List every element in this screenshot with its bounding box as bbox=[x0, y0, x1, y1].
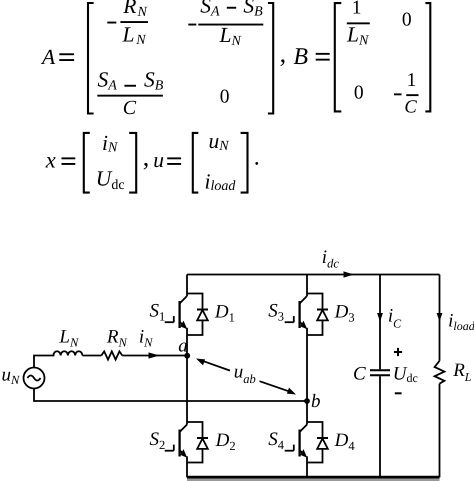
transistor S2 bbox=[165, 425, 187, 457]
transistor S3 bbox=[285, 296, 307, 328]
arrow idc bbox=[344, 271, 355, 277]
equation: matrix B right bracket bbox=[425, 3, 430, 111]
svg-text:,: , bbox=[280, 39, 287, 68]
equation: fraction bar 1/LN bbox=[347, 22, 370, 24]
svg-text:SA: SA bbox=[98, 68, 118, 94]
equation: fraction bar (SA-SB)/C bbox=[97, 95, 163, 97]
wire load branch upper bbox=[439, 275, 441, 361]
diode D1 bbox=[187, 294, 208, 336]
svg-text:Udc: Udc bbox=[393, 364, 418, 386]
equation: vector u right bracket bbox=[241, 133, 248, 193]
svg-text:LN: LN bbox=[346, 23, 369, 49]
wire top rail bbox=[187, 274, 440, 276]
svg-text:0: 0 bbox=[220, 87, 230, 108]
gray strip under bottom rail bbox=[187, 479, 440, 481]
wire leg2 upper bbox=[306, 275, 308, 297]
svg-text:iload: iload bbox=[448, 311, 474, 334]
svg-text:C: C bbox=[404, 98, 417, 118]
svg-text:RN: RN bbox=[122, 0, 147, 20]
svg-text:S4: S4 bbox=[268, 429, 285, 452]
svg-text:S3: S3 bbox=[268, 300, 284, 323]
svg-text:0: 0 bbox=[402, 10, 412, 31]
diode D3 bbox=[307, 294, 328, 336]
svg-text:idc: idc bbox=[322, 247, 340, 271]
svg-text:iC: iC bbox=[388, 306, 402, 331]
label Udc plus sign bbox=[394, 351, 402, 353]
wire resistor to node a bbox=[122, 355, 187, 357]
wire load branch lower bbox=[439, 384, 441, 478]
equation: vector u left bracket bbox=[193, 133, 199, 193]
svg-text:iload: iload bbox=[205, 169, 237, 194]
svg-text:D1: D1 bbox=[214, 301, 235, 324]
capacitor C plates bbox=[370, 370, 390, 375]
resistor RL bbox=[435, 361, 445, 384]
svg-text:x: x bbox=[45, 148, 56, 173]
equation: fraction bar RN/LN bbox=[120, 21, 148, 23]
wire capacitor branch lower bbox=[379, 376, 381, 477]
equation: minus before RN/LN bbox=[107, 22, 116, 24]
wire leg1 middle bbox=[186, 328, 188, 425]
svg-text:LN: LN bbox=[122, 22, 147, 48]
wire capacitor branch upper bbox=[379, 275, 381, 370]
equation: matrix A right bracket bbox=[268, 3, 273, 114]
equation: equals after x bbox=[62, 157, 76, 159]
svg-text:D4: D4 bbox=[334, 430, 356, 453]
transistor S4 bbox=[285, 425, 307, 457]
svg-text:SA: SA bbox=[200, 0, 220, 19]
svg-text:Udc: Udc bbox=[96, 166, 125, 193]
equation: fraction bar (SA-SB)/LN bbox=[198, 24, 263, 26]
svg-text:a: a bbox=[178, 336, 188, 357]
node b bbox=[304, 398, 310, 404]
svg-text:A: A bbox=[40, 45, 56, 69]
wire source bottom to node b bbox=[34, 389, 307, 402]
svg-text:0: 0 bbox=[354, 83, 364, 104]
svg-text:C: C bbox=[353, 364, 366, 385]
svg-text:RL: RL bbox=[452, 360, 472, 384]
arrow iN bbox=[149, 352, 160, 358]
svg-text:SB: SB bbox=[243, 0, 263, 19]
svg-text:S2: S2 bbox=[150, 429, 166, 452]
source uN bbox=[24, 368, 45, 389]
svg-text:B: B bbox=[293, 44, 308, 70]
equation: equals after u bbox=[167, 157, 181, 159]
svg-text:uN: uN bbox=[2, 365, 21, 388]
equation: minus inside SA-SB row1 bbox=[227, 7, 236, 9]
svg-text:uab: uab bbox=[234, 361, 256, 386]
equation: vector x left bracket bbox=[84, 133, 90, 193]
equation: equals after A bbox=[59, 53, 74, 55]
svg-text:1: 1 bbox=[352, 0, 362, 19]
circuit labels bbox=[2, 247, 474, 453]
equation: fraction bar 1/C bbox=[406, 94, 418, 96]
svg-text:,: , bbox=[143, 143, 150, 172]
wire after inductor to resistor bbox=[82, 355, 101, 357]
label Udc minus sign bbox=[395, 392, 402, 394]
svg-text:D2: D2 bbox=[215, 430, 236, 453]
svg-text:SB: SB bbox=[144, 68, 164, 94]
svg-text:C: C bbox=[123, 97, 137, 119]
resistor RN bbox=[101, 351, 122, 359]
wire bottom rail bbox=[187, 476, 440, 479]
equation: vector x right bracket bbox=[129, 133, 136, 193]
svg-text:D3: D3 bbox=[334, 301, 355, 324]
wire leg2 lower bbox=[306, 456, 308, 477]
svg-text:iN: iN bbox=[139, 327, 153, 350]
svg-text:1: 1 bbox=[407, 70, 417, 91]
inductor LN bbox=[53, 351, 82, 355]
equation: matrix B left bracket bbox=[335, 3, 342, 111]
wire leg2 middle bbox=[306, 328, 308, 425]
svg-text:b: b bbox=[311, 391, 321, 412]
wire source top bbox=[34, 356, 54, 368]
diode D4 bbox=[307, 422, 328, 463]
svg-text:.: . bbox=[254, 145, 260, 171]
svg-text:LN: LN bbox=[58, 327, 79, 350]
diode D2 bbox=[187, 422, 208, 463]
svg-text:iN: iN bbox=[102, 131, 118, 156]
svg-text:RN: RN bbox=[106, 327, 128, 350]
wire leg1 lower bbox=[186, 456, 188, 477]
arrow iC bbox=[377, 313, 383, 322]
equation: matrix A left bracket bbox=[88, 3, 94, 114]
node a bbox=[184, 353, 190, 359]
svg-text:u: u bbox=[153, 148, 164, 172]
arrow uab double-headed bbox=[196, 359, 296, 395]
equation: minus before (SA-SB)/LN bbox=[188, 24, 196, 26]
equation: equals after B bbox=[316, 53, 330, 55]
svg-text:S1: S1 bbox=[150, 300, 166, 323]
transistor S1 bbox=[165, 296, 187, 328]
equation: minus inside SA-SB row2 bbox=[124, 85, 136, 87]
svg-text:uN: uN bbox=[209, 129, 230, 154]
equation: minus before 1/C bbox=[394, 93, 402, 95]
arrow iload bbox=[437, 313, 443, 322]
wire leg1 upper bbox=[186, 275, 188, 297]
svg-text:LN: LN bbox=[219, 23, 242, 49]
